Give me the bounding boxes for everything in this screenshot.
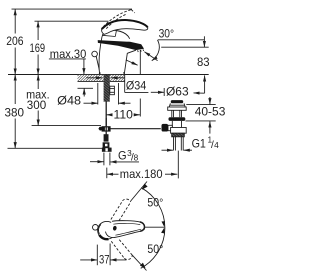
node: flange — [168, 107, 187, 110]
node: faucet body column outline — [99, 29, 130, 74]
node: plug cap body — [169, 103, 185, 107]
wire: knob leader line — [96, 56, 100, 75]
component: lever handle raised (dashed) — [103, 10, 135, 29]
svg-text:300: 300 — [27, 98, 47, 112]
svg-text:max.30: max.30 — [50, 47, 87, 61]
wire: pull rod below shank — [105, 102, 107, 127]
svg-text:G: G — [118, 148, 127, 162]
svg-text:30°: 30° — [159, 27, 175, 41]
component: rod clamp joint — [102, 126, 111, 131]
component: pull-rod knob circle on body — [92, 51, 98, 57]
component: lever handle (solid) — [102, 20, 148, 34]
wire: G1 1/4 arrows — [162, 149, 174, 151]
wire: leader arrow toward outlet axis — [126, 60, 138, 65]
component: handle top view — [93, 221, 145, 240]
wire: dimension max.180 — [107, 168, 178, 179]
node: 30deg horizontal reference line — [158, 39, 205, 41]
node: max300 bottom reference tick — [32, 125, 101, 127]
node: deck / countertop line — [8, 74, 209, 76]
component: horizontal pop-up rod — [99, 128, 161, 130]
svg-text:4: 4 — [214, 141, 219, 150]
node: neck — [171, 110, 173, 117]
node: thread stub — [172, 133, 185, 137]
component: dashed handle position +50 (up) — [111, 199, 131, 221]
svg-text:Ø48: Ø48 — [57, 94, 81, 108]
svg-text:37: 37 — [99, 252, 110, 266]
component: countertop cross-section — [78, 75, 149, 93]
wire: dimension 169 vertical — [37, 21, 39, 40]
svg-text:40-53: 40-53 — [195, 105, 226, 119]
node: deck bottom line — [78, 80, 125, 82]
node: lever blade — [106, 221, 145, 238]
wire: dimension max300 vertical — [37, 75, 39, 90]
component: pop-up waste assembly — [162, 100, 193, 178]
svg-text:Ø63: Ø63 — [166, 85, 189, 99]
svg-text:169: 169 — [30, 41, 46, 55]
svg-text:83: 83 — [197, 55, 210, 69]
component: dashed handle position -50 (down) — [111, 240, 132, 260]
svg-text:206: 206 — [6, 34, 23, 48]
node: pipe axis line — [177, 151, 179, 179]
annotation: 50-degree swing arcs — [131, 182, 165, 271]
svg-text:50°: 50° — [147, 196, 163, 210]
node: 380 bottom reference tick — [8, 147, 112, 149]
svg-text:Ø34: Ø34 — [126, 79, 147, 93]
component: faucet side view — [99, 29, 136, 74]
wire: O48 extension lines + arrows — [84, 83, 131, 105]
svg-text:380: 380 — [5, 105, 25, 119]
svg-text:110: 110 — [114, 108, 134, 122]
wire: dimension 380 vertical — [14, 75, 16, 105]
node: aerator marks — [138, 49, 144, 52]
component: supply pipe G3/8 — [90, 153, 139, 166]
node: plug cap dark top — [171, 100, 183, 103]
node: pull rod knob (top view) — [93, 225, 99, 231]
svg-text:max.180: max.180 — [120, 167, 163, 181]
wire: dimension O63 — [151, 88, 164, 96]
svg-text:G1: G1 — [192, 137, 206, 151]
node: lever knob — [168, 125, 172, 130]
node: spout outlet reference line — [161, 46, 209, 48]
node: pivot boss — [98, 221, 116, 239]
component: mounting screw (right of shank) — [110, 86, 115, 95]
node: raised-lever reference line (top) — [12, 8, 133, 10]
wire: horizontal reference with arrow to arc — [145, 226, 165, 228]
node: spout black wedge — [98, 40, 144, 50]
wire: spout-face direction line with arrow — [144, 52, 157, 61]
node: lever-top reference line — [35, 20, 109, 22]
wire: dimension 83 lower arrow + shared leader to O63 — [204, 75, 206, 93]
node: spout underside lines — [124, 50, 136, 74]
wire: rod above clamp — [105, 118, 107, 135]
node: base flare — [99, 72, 125, 74]
component: G3/8 connection nut stack — [104, 134, 109, 141]
node: tailpipe — [173, 137, 175, 151]
node: boss shadow arc — [99, 235, 108, 239]
wire: dimension 37 — [80, 244, 126, 266]
annotation: 30-degree arc — [126, 36, 209, 93]
wire: dimension 206 vertical — [14, 9, 16, 33]
node: locknut — [171, 128, 187, 134]
wire: dimension 83 upper arrow — [203, 36, 205, 47]
wire: dimension 110 — [106, 50, 140, 117]
wire: max.30 leader + arrows at deck — [49, 58, 86, 60]
wire: lower extension line + arrow — [132, 255, 146, 270]
svg-text:8: 8 — [134, 154, 139, 163]
node: max.30 lower reference tick — [78, 87, 94, 89]
component: threaded shank through deck — [104, 75, 110, 102]
wire: G3/8 arrows — [90, 161, 104, 163]
node: drain body — [171, 121, 173, 128]
node: black seal ring — [169, 117, 186, 121]
wire: O34 arrows at deck — [86, 77, 124, 79]
svg-text:50°: 50° — [147, 242, 163, 256]
wire: dimension 40-53 — [186, 97, 216, 134]
wire: upper extension line + arrow — [131, 182, 147, 202]
